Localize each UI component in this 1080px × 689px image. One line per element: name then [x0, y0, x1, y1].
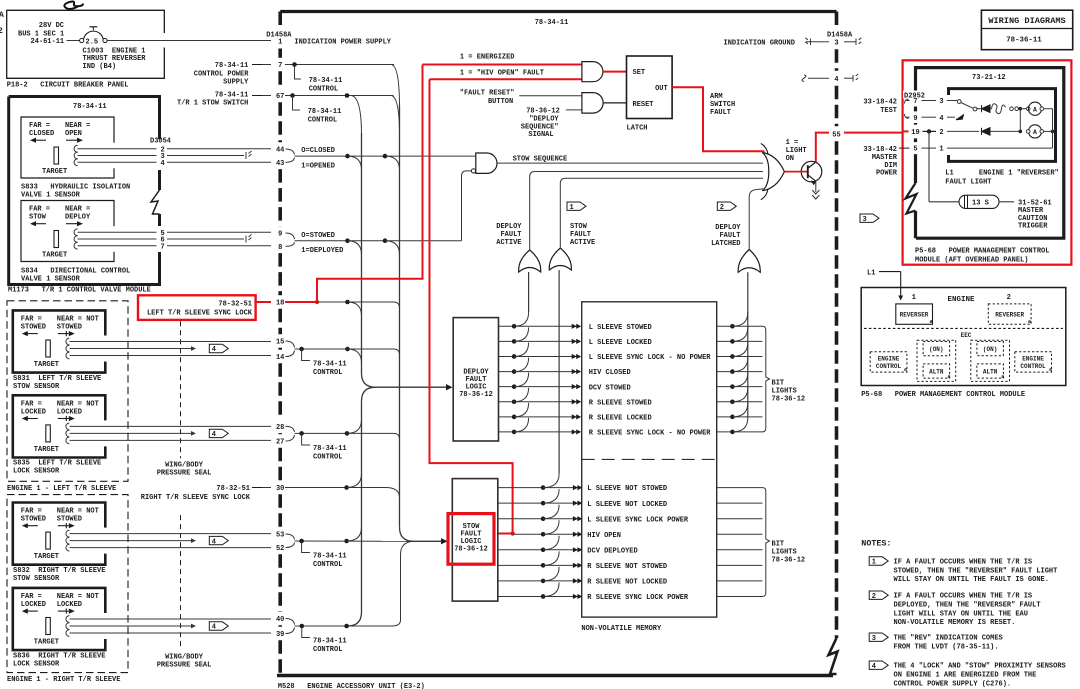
svg-text:S836 RIGHT T/R SLEEVE: S836 RIGHT T/R SLEEVE	[13, 652, 105, 660]
engine group dashed box	[7, 301, 128, 482]
svg-text:LOCKED: LOCKED	[21, 408, 46, 416]
svg-text:LIGHT WILL STAY ON UNTIL THE E: LIGHT WILL STAY ON UNTIL THE EAU	[894, 610, 1028, 618]
proximity sensor S835	[13, 395, 106, 457]
svg-text:DEPLOY: DEPLOY	[496, 223, 522, 231]
branch down to row 40/39	[392, 541, 413, 626]
svg-text:R SLEEVE NOT LOCKED: R SLEEVE NOT LOCKED	[587, 579, 667, 587]
svg-text:BUTTON: BUTTON	[488, 98, 513, 106]
svg-text:78-36-12: 78-36-12	[526, 107, 560, 115]
svg-text:5: 5	[913, 146, 917, 154]
svg-text:FAULT: FAULT	[710, 109, 731, 117]
svg-text:78-36-11: 78-36-11	[1006, 37, 1042, 45]
svg-text:4: 4	[834, 76, 838, 84]
svg-text:CONTROL: CONTROL	[313, 454, 342, 462]
connector D1458A left (EAU)	[278, 12, 282, 678]
svg-text:2: 2	[939, 129, 943, 137]
svg-text:a: a	[904, 367, 907, 373]
svg-text:WILL STAY ON UNTIL THE FAULT I: WILL STAY ON UNTIL THE FAULT IS GONE.	[894, 576, 1049, 584]
wire pair 15/14 merge	[286, 341, 295, 348]
svg-text:STOWED: STOWED	[21, 324, 46, 332]
svg-text:LEFT T/R SLEEVE SYNC LOCK: LEFT T/R SLEEVE SYNC LOCK	[147, 310, 253, 318]
sensor wires	[70, 425, 272, 427]
svg-text:LOCKED: LOCKED	[21, 601, 46, 609]
svg-text:FAR =: FAR =	[21, 316, 42, 324]
wire breaker to pin 1	[107, 40, 271, 42]
EAU top border	[280, 10, 836, 13]
svg-text:78-32-51: 78-32-51	[218, 301, 252, 309]
svg-text:ON ENGINE 1 ARE ENERGIZED FROM: ON ENGINE 1 ARE ENERGIZED FROM THE	[894, 671, 1037, 679]
wire R SLEEVE SYNC LOCK POWER	[498, 595, 578, 597]
red wire 55 into pin 19	[903, 130, 909, 132]
svg-text:(ON): (ON)	[983, 346, 997, 353]
svg-text:L SLEEVE STOWED: L SLEEVE STOWED	[589, 324, 652, 332]
lightning bolt bottom right EAU	[829, 638, 838, 674]
svg-text:CONTROL: CONTROL	[313, 561, 342, 569]
svg-text:M528 ENGINE ACCESSORY UNIT (: M528 ENGINE ACCESSORY UNIT (E3-2)	[278, 683, 425, 689]
wiring diagrams title box	[981, 10, 1072, 50]
svg-text:4: 4	[212, 431, 216, 439]
M1173 module box	[9, 97, 160, 285]
svg-text:1 =: 1 =	[786, 139, 799, 147]
reverser box 1	[896, 304, 933, 324]
svg-text:S832 RIGHT T/R SLEEVE: S832 RIGHT T/R SLEEVE	[13, 567, 105, 575]
wire L SLEEVE SYNC LOCK - NO POWER	[499, 355, 578, 357]
svg-text:28V DC: 28V DC	[39, 22, 64, 30]
svg-text:D3054: D3054	[150, 138, 171, 146]
svg-text:P18-2 CIRCUIT BREAKER PANEL: P18-2 CIRCUIT BREAKER PANEL	[7, 82, 129, 90]
svg-text:73-21-12: 73-21-12	[972, 74, 1006, 82]
svg-text:S831 LEFT T/R SLEEVE: S831 LEFT T/R SLEEVE	[13, 375, 101, 383]
svg-text:DCV STOWED: DCV STOWED	[589, 384, 631, 392]
svg-text:O=CLOSED: O=CLOSED	[301, 147, 335, 155]
svg-text:ENGINE 1 - LEFT T/R SLEEVE: ENGINE 1 - LEFT T/R SLEEVE	[7, 485, 116, 493]
svg-text:2: 2	[872, 593, 876, 601]
svg-text:4: 4	[161, 160, 165, 168]
svg-text:CONTROL: CONTROL	[1020, 363, 1046, 370]
deploy logic input arrow	[376, 386, 449, 388]
AND gate U1 (set)	[582, 62, 603, 82]
svg-text:8: 8	[278, 244, 282, 252]
svg-text:NEAR = NOT: NEAR = NOT	[57, 400, 99, 408]
note flag 4	[869, 661, 888, 669]
red wire to pin 18	[256, 301, 271, 303]
deploy fault latched collector bus	[747, 272, 749, 418]
svg-text:R SLEEVE LOCKED: R SLEEVE LOCKED	[589, 414, 652, 422]
latch box	[627, 56, 673, 119]
note flag 1	[869, 557, 888, 565]
lamp circuit row 3	[907, 100, 910, 102]
EEC dashed separator	[864, 327, 1063, 329]
wire L SLEEVE LOCKED	[499, 340, 578, 342]
svg-text:MASTER: MASTER	[872, 154, 898, 162]
svg-text:a: a	[1028, 319, 1031, 325]
svg-text:78-34-11: 78-34-11	[313, 553, 347, 561]
svg-text:TRIGGER: TRIGGER	[1018, 223, 1048, 231]
svg-text:1=DEPLOYED: 1=DEPLOYED	[301, 247, 343, 255]
control label pin 7	[295, 65, 302, 80]
bit lights bracket lower	[763, 488, 770, 597]
svg-text:13 S: 13 S	[972, 199, 989, 207]
svg-text:LOCK SENSOR: LOCK SENSOR	[13, 660, 60, 668]
svg-text:ACTIVE: ACTIVE	[570, 239, 595, 247]
svg-text:LATCHED: LATCHED	[711, 240, 740, 248]
svg-text:78-34-11: 78-34-11	[215, 92, 249, 100]
svg-text:7: 7	[913, 98, 917, 106]
svg-text:WING/BODY: WING/BODY	[165, 654, 204, 662]
svg-text:1 = ENERGIZED: 1 = ENERGIZED	[460, 54, 515, 62]
svg-text:STOWED, THEN THE "REVERSER" FA: STOWED, THEN THE "REVERSER" FAULT LIGHT	[894, 567, 1058, 575]
svg-text:28: 28	[276, 424, 284, 432]
svg-text:NON-VOLATILE MEMORY: NON-VOLATILE MEMORY	[581, 625, 662, 633]
svg-text:BIT: BIT	[772, 541, 785, 549]
svg-text:PRESSURE SEAL: PRESSURE SEAL	[157, 662, 212, 670]
svg-text:1: 1	[912, 294, 916, 302]
wire pin 7 (bus B start)	[285, 64, 394, 66]
pin 4 shield stubs	[802, 75, 806, 81]
svg-text:DEPLOYED, THEN THE "REVERSER": DEPLOYED, THEN THE "REVERSER" FAULT	[894, 601, 1041, 609]
OR gate deploy fault active	[519, 250, 541, 272]
svg-text:FAR =: FAR =	[29, 206, 50, 214]
stow fault logic box	[452, 479, 498, 601]
svg-text:REVERSER: REVERSER	[900, 312, 929, 319]
svg-text:31-52-61: 31-52-61	[1018, 199, 1052, 207]
emitter to ground	[815, 181, 817, 192]
wire HIV OPEN	[513, 533, 578, 535]
riser deploy fault latched into lamp OR	[749, 189, 763, 250]
svg-text:STOWED: STOWED	[57, 516, 82, 524]
svg-text:OUT: OUT	[655, 85, 668, 93]
lamp module box L1	[949, 89, 1056, 162]
svg-text:TARGET: TARGET	[34, 553, 59, 561]
svg-text:FAR =: FAR =	[29, 122, 50, 130]
wing/body pressure seal dashed line	[180, 321, 182, 458]
svg-text:BIT: BIT	[772, 380, 785, 388]
svg-text:53: 53	[276, 532, 284, 540]
red route to HIV-open AND input	[317, 65, 423, 303]
svg-text:15: 15	[276, 339, 284, 347]
svg-text:FAULT: FAULT	[570, 231, 591, 239]
svg-text:FAR =: FAR =	[21, 508, 42, 516]
svg-text:VALVE 1 SENSOR: VALVE 1 SENSOR	[21, 276, 81, 284]
wire DCV DEPLOYED	[498, 549, 578, 551]
svg-text:DEPLOY: DEPLOY	[715, 224, 741, 232]
svg-text:1=OPENED: 1=OPENED	[301, 162, 335, 170]
svg-text:ON: ON	[786, 155, 794, 163]
svg-text:7: 7	[278, 62, 282, 70]
svg-text:THE "REV" INDICATION COMES: THE "REV" INDICATION COMES	[894, 635, 1003, 643]
svg-text:LIGHT: LIGHT	[786, 147, 807, 155]
svg-text:TARGET: TARGET	[34, 446, 59, 454]
svg-text:STOW SEQUENCE: STOW SEQUENCE	[513, 155, 568, 163]
non-volatile memory box	[582, 302, 717, 617]
svg-text:HIV CLOSED: HIV CLOSED	[589, 369, 631, 377]
svg-text:ALTN: ALTN	[983, 369, 998, 376]
svg-text:78-34-11: 78-34-11	[313, 638, 347, 646]
proximity sensor S833	[21, 117, 114, 178]
svg-text:VALVE 1 SENSOR: VALVE 1 SENSOR	[21, 192, 81, 200]
svg-text:ACTIVE: ACTIVE	[496, 239, 521, 247]
EAU bottom border	[277, 674, 833, 677]
OR gate deploy fault latched	[738, 250, 760, 273]
bus to deploy fault active gate	[528, 272, 530, 312]
svg-text:CONTROL: CONTROL	[313, 646, 342, 654]
svg-text:CONTROL: CONTROL	[313, 369, 342, 377]
wire R SLEEVE STOWED	[499, 401, 578, 403]
lightning bolt break M1173	[151, 190, 160, 214]
transistor Q1	[801, 161, 822, 182]
svg-text:78-36-12: 78-36-12	[459, 391, 493, 399]
svg-text:HIV OPEN: HIV OPEN	[587, 532, 621, 540]
svg-text:SET: SET	[633, 69, 646, 77]
svg-text:FAULT: FAULT	[500, 231, 521, 239]
red wire 1=HIV OPEN FAULT	[430, 79, 513, 533]
sensor wires	[70, 618, 272, 620]
wire L SLEEVE STOWED	[499, 325, 578, 327]
OR gate lamp driver	[761, 144, 768, 155]
svg-text:A: A	[0, 11, 4, 20]
wire gate to RESET	[603, 102, 627, 104]
svg-text:TEST: TEST	[880, 107, 897, 115]
wire R SLEEVE SYNC LOCK - NO POWER	[499, 431, 578, 433]
svg-text:43: 43	[276, 160, 284, 168]
svg-text:THE 4 "LOCK" AND "STOW" PROXIM: THE 4 "LOCK" AND "STOW" PROXIMITY SENSOR…	[894, 663, 1066, 671]
svg-text:L SLEEVE SYNC LOCK - NO POWER: L SLEEVE SYNC LOCK - NO POWER	[589, 354, 712, 362]
svg-text:a: a	[948, 374, 951, 380]
sensor wires	[70, 341, 272, 343]
collector red wire to pin 55	[816, 133, 829, 162]
svg-text:FROM THE LVDT (78-35-11).: FROM THE LVDT (78-35-11).	[894, 643, 999, 651]
note flag 3	[869, 633, 888, 641]
svg-text:3: 3	[834, 39, 838, 47]
proximity sensor S832	[13, 503, 106, 565]
svg-text:PRESSURE SEAL: PRESSURE SEAL	[157, 470, 212, 478]
svg-text:STOW: STOW	[570, 223, 588, 231]
svg-text:40: 40	[276, 616, 284, 624]
lamp circuit row 4	[907, 116, 910, 118]
svg-text:S835 LEFT T/R SLEEVE: S835 LEFT T/R SLEEVE	[13, 460, 101, 468]
black branch row 18	[317, 301, 394, 303]
svg-text:L SLEEVE SYNC LOCK POWER: L SLEEVE SYNC LOCK POWER	[587, 516, 689, 524]
svg-text:1: 1	[570, 204, 574, 212]
svg-text:ALTN: ALTN	[929, 369, 944, 376]
svg-text:TARGET: TARGET	[42, 252, 67, 260]
bus to stow fault active gate	[558, 270, 560, 474]
svg-text:CLOSED: CLOSED	[29, 130, 54, 138]
sensor wires	[70, 533, 272, 535]
svg-text:NOTES:: NOTES:	[861, 538, 891, 548]
svg-text:WING/BODY: WING/BODY	[165, 462, 204, 470]
svg-text:78-34-11: 78-34-11	[313, 445, 347, 453]
red wire OUT to lamp OR gate (arm switch fault)	[672, 87, 764, 151]
engine module box	[861, 288, 1066, 386]
lamp A2	[1028, 125, 1041, 138]
svg-text:L SLEEVE LOCKED: L SLEEVE LOCKED	[589, 339, 652, 347]
wire up to stow sequence gate	[462, 171, 472, 241]
svg-text:CONTROL: CONTROL	[876, 363, 902, 370]
svg-text:D1458A: D1458A	[827, 32, 853, 40]
svg-text:44: 44	[276, 147, 284, 155]
OR gate stow fault active	[549, 248, 571, 270]
svg-text:POWER: POWER	[876, 170, 898, 178]
svg-text:2: 2	[720, 204, 724, 212]
svg-text:STOWED: STOWED	[57, 324, 82, 332]
svg-text:27: 27	[276, 439, 284, 447]
svg-text:A: A	[1033, 106, 1037, 113]
svg-text:SUPPLY: SUPPLY	[223, 79, 249, 87]
wing/body pressure seal dashed line	[180, 515, 182, 650]
reverser box 2 dashed	[988, 304, 1031, 324]
svg-text:FAR =: FAR =	[21, 400, 42, 408]
svg-text:SWITCH: SWITCH	[710, 101, 735, 109]
svg-text:ENGINE 1 - RIGHT T/R SLEEVE: ENGINE 1 - RIGHT T/R SLEEVE	[7, 676, 120, 684]
svg-text:IND (B4): IND (B4)	[83, 63, 117, 71]
bus B vertical	[399, 105, 401, 527]
red highlight box P5-68	[903, 60, 1072, 264]
svg-text:14: 14	[276, 354, 284, 362]
svg-text:9: 9	[278, 231, 282, 239]
svg-text:LOCK SENSOR: LOCK SENSOR	[13, 468, 60, 476]
svg-text:CONTROL: CONTROL	[309, 86, 338, 94]
svg-text:NEAR =: NEAR =	[65, 206, 90, 214]
svg-text:SIGNAL: SIGNAL	[528, 131, 553, 139]
AND gate U2 (reset)	[582, 93, 603, 114]
red wire gate to SET	[603, 71, 627, 73]
wire pair 53/52 merge	[286, 534, 295, 540]
svg-text:55: 55	[832, 131, 840, 139]
svg-text:WIRING DIAGRAMS: WIRING DIAGRAMS	[988, 16, 1065, 26]
svg-text:FAULT LIGHT: FAULT LIGHT	[945, 179, 991, 187]
svg-text:CONTROL: CONTROL	[308, 117, 337, 125]
svg-text:LOCKED: LOCKED	[57, 601, 82, 609]
stow logic input arrow	[407, 540, 443, 542]
svg-text:LIGHTS: LIGHTS	[772, 549, 797, 557]
wires S834 to EAU pins 9/8	[78, 231, 157, 233]
AND gate stow sequence	[476, 153, 497, 173]
red highlight box LEFT T/R SLEEVE SYNC LOCK	[138, 295, 256, 320]
svg-text:9: 9	[913, 115, 917, 123]
wire L SLEEVE NOT STOWED	[498, 487, 578, 489]
wire pair 44/43 merge	[286, 149, 295, 155]
red wire pin 18	[285, 301, 317, 303]
svg-text:24-61-11: 24-61-11	[31, 38, 65, 46]
svg-text:TARGET: TARGET	[42, 168, 67, 176]
riser deploy fault active	[530, 172, 763, 251]
svg-text:a: a	[1001, 374, 1004, 380]
svg-text:a: a	[930, 319, 933, 325]
proximity sensor S836	[13, 588, 106, 650]
svg-text:a: a	[1049, 367, 1052, 373]
svg-text:STOWED: STOWED	[21, 516, 46, 524]
svg-text:3: 3	[939, 98, 943, 106]
svg-text:4: 4	[872, 663, 876, 671]
lamp A1	[1028, 102, 1041, 115]
svg-text:CAUTION: CAUTION	[1018, 215, 1047, 223]
svg-text:2.5: 2.5	[86, 39, 99, 47]
svg-text:67: 67	[276, 93, 284, 101]
lightning bolt P5-68	[906, 183, 917, 214]
svg-text:1: 1	[939, 146, 943, 154]
svg-text:1 = "HIV OPEN" FAULT: 1 = "HIV OPEN" FAULT	[460, 70, 544, 78]
svg-text:D1458A: D1458A	[266, 32, 292, 40]
svg-text:S833 HYDRAULIC ISOLATION: S833 HYDRAULIC ISOLATION	[21, 184, 130, 192]
bus A vertical	[361, 133, 363, 373]
EAU right connector D1458A	[835, 12, 839, 639]
engine control box left	[870, 352, 907, 372]
svg-text:SEQUENCE": SEQUENCE"	[521, 123, 559, 131]
svg-text:NEAR =: NEAR =	[65, 122, 90, 130]
wire R SLEEVE LOCKED	[499, 416, 578, 418]
svg-text:TARGET: TARGET	[34, 361, 59, 369]
P5-68 heavy box	[916, 68, 1064, 239]
svg-text:78-34-11: 78-34-11	[308, 108, 342, 116]
svg-text:P5-68 POWER MANAGEMENT CONTR: P5-68 POWER MANAGEMENT CONTROL MODULE	[861, 391, 1025, 399]
engine group dashed box	[7, 495, 128, 673]
svg-text:REVERSER: REVERSER	[995, 312, 1024, 319]
proximity sensor S834	[21, 201, 114, 262]
svg-text:THRUST REVERSER: THRUST REVERSER	[83, 55, 147, 63]
svg-text:R SLEEVE SYNC LOCK - NO POWER: R SLEEVE SYNC LOCK - NO POWER	[589, 430, 712, 438]
svg-text:ENGINE: ENGINE	[947, 296, 975, 304]
svg-text:78-32-51: 78-32-51	[216, 485, 250, 493]
svg-text:TARGET: TARGET	[34, 639, 59, 647]
svg-text:ENGINE: ENGINE	[1022, 356, 1044, 363]
svg-text:S834 DIRECTIONAL CONTROL: S834 DIRECTIONAL CONTROL	[21, 268, 130, 276]
circuit breaker C1003 2.5A	[67, 40, 80, 42]
svg-text:CONTROL POWER SUPPLY (C276).: CONTROL POWER SUPPLY (C276).	[894, 680, 1012, 688]
ON/ALTN group 1	[917, 340, 956, 381]
shield termination wire 6	[246, 235, 252, 243]
wire DCV STOWED	[499, 386, 578, 388]
svg-text:78-34-11: 78-34-11	[73, 103, 107, 111]
wire L SLEEVE SYNC LOCK POWER	[498, 518, 578, 520]
svg-text:ARM: ARM	[710, 93, 723, 101]
13S caution trigger	[928, 131, 930, 201]
svg-text:M1173 T/R 1 CONTROL VALVE MO: M1173 T/R 1 CONTROL VALVE MODULE	[8, 287, 151, 295]
svg-text:R SLEEVE STOWED: R SLEEVE STOWED	[589, 399, 652, 407]
svg-text:DIM: DIM	[884, 162, 897, 170]
shield termination wire 3	[246, 151, 252, 159]
svg-text:18: 18	[276, 300, 284, 308]
svg-text:A: A	[1033, 129, 1037, 136]
svg-text:NON-VOLATILE MEMORY IS RESET.: NON-VOLATILE MEMORY IS RESET.	[894, 619, 1016, 627]
svg-text:78-36-12: 78-36-12	[772, 396, 806, 404]
stow sequence output wire	[497, 162, 763, 164]
bit lights bracket upper	[763, 326, 770, 432]
wire L SLEEVE NOT LOCKED	[498, 502, 578, 504]
wire R SLEEVE NOT STOWED	[498, 564, 578, 566]
svg-text:78-34-11: 78-34-11	[215, 62, 249, 70]
svg-text:R SLEEVE NOT STOWED: R SLEEVE NOT STOWED	[587, 563, 667, 571]
note flag 3	[860, 214, 879, 222]
svg-text:L SLEEVE NOT LOCKED: L SLEEVE NOT LOCKED	[587, 501, 667, 509]
svg-text:OPEN: OPEN	[65, 130, 82, 138]
svg-text:4: 4	[939, 115, 943, 123]
svg-text:4: 4	[212, 346, 216, 354]
svg-text:2: 2	[1007, 294, 1011, 302]
svg-text:LOCKED: LOCKED	[57, 408, 82, 416]
svg-text:4: 4	[212, 538, 216, 546]
svg-text:NEAR = NOT: NEAR = NOT	[57, 593, 99, 601]
engine control box right	[1015, 352, 1052, 372]
svg-text:NEAR = NOT: NEAR = NOT	[57, 508, 99, 516]
circuit breaker panel box P18-2	[7, 10, 165, 78]
svg-text:L1: L1	[867, 270, 875, 278]
svg-text:"DEPLOY: "DEPLOY	[529, 116, 559, 124]
svg-text:STOW SENSOR: STOW SENSOR	[13, 383, 60, 391]
wire pin 67 (bus A start)	[285, 95, 394, 97]
wire pair 9/8 merge	[286, 233, 295, 239]
svg-text:L SLEEVE NOT STOWED: L SLEEVE NOT STOWED	[587, 485, 667, 493]
